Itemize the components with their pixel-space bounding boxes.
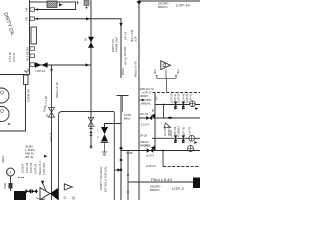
svg-text:250B: 250B: [126, 151, 133, 155]
inline strainer tall rect: [31, 27, 36, 44]
svg-text:C: C: [64, 195, 67, 200]
top boundary line: [139, 0, 200, 2]
svg-text:304: 304: [176, 69, 180, 74]
rounded package box top and right edge: [62, 112, 114, 201]
instrument circle cross b: [189, 135, 195, 141]
manifold row A line y104.5: [155, 104, 200, 106]
node dot: [8, 123, 10, 125]
svg-text:W6 49: W6 49: [25, 155, 34, 159]
dashed line y166.5: [163, 166, 200, 168]
manifold row D line y138.3: [152, 137, 200, 139]
svg-text:P&Id x 5.49: P&Id x 5.49: [151, 177, 172, 182]
junction blob x121 y170: [120, 169, 123, 172]
svg-text:MT SOLV.TOR (IA): MT SOLV.TOR (IA): [104, 167, 108, 192]
svg-text:N5: N5: [25, 16, 29, 20]
svg-text:CHEM.RO: CHEM.RO: [27, 88, 31, 102]
svg-text:LOP-30: LOP-30: [182, 126, 186, 136]
svg-text:LlP-26: LlP-26: [139, 134, 148, 138]
dashed signal line: [153, 92, 201, 94]
nozzle flange F2: [30, 17, 35, 20]
svg-text:250B: 250B: [169, 130, 173, 137]
mini drain bowtie: [89, 132, 93, 136]
svg-text:LGV-3: LGV-3: [146, 154, 154, 158]
svg-text:DIRTY OIL: DIRTY OIL: [2, 12, 15, 37]
row D feet arrows: [174, 141, 177, 143]
x128 line: [127, 151, 129, 201]
svg-text:LOP-18: LOP-18: [29, 162, 33, 173]
package box left edge: [59, 112, 63, 201]
row A feet arrows: [174, 107, 177, 109]
svg-text:x: x: [97, 135, 99, 139]
mixer bar with upturned ends: [157, 76, 176, 79]
top node diamond: [137, 0, 142, 4]
wire to F1 with arrow: [35, 9, 76, 11]
stub arrow at x139 y100: [139, 99, 142, 101]
svg-text:Q: Q: [72, 195, 75, 200]
wire top-left box outline: [30, 2, 76, 10]
pump circle C2: [0, 107, 9, 122]
svg-text:LOP-26: LOP-26: [177, 93, 181, 103]
dotted row: [18, 177, 24, 179]
wire vessel right edge: [0, 85, 26, 132]
svg-text:2x: 2x: [45, 113, 49, 117]
wire valve line y65: [35, 64, 92, 66]
svg-text:LOP-3: LOP-3: [172, 186, 184, 191]
svg-text:LO-41: LO-41: [189, 93, 193, 101]
mixer triangle symbol: [161, 61, 171, 70]
tick below V3: [89, 128, 93, 130]
pump circle C1: [0, 88, 9, 103]
svg-text:BRIDYL: BRIDYL: [158, 5, 169, 9]
T stem mid: [122, 96, 124, 113]
lever: [43, 183, 47, 192]
svg-text:(DIRTY OIL REA(: (DIRTY OIL REA(: [99, 167, 103, 190]
instrument cluster top: [84, 0, 89, 6]
instrument circle cross c: [188, 146, 194, 152]
arrow at junction with x91 line: [86, 17, 90, 20]
stem to signal line: [165, 78, 167, 92]
svg-text:LOP-16: LOP-16: [36, 69, 46, 73]
junction dot: [51, 69, 53, 71]
svg-text:SM01: SM01: [1, 155, 5, 163]
svg-text:P&Id x 5.49: P&Id x 5.49: [134, 61, 138, 77]
manifold left line x155: [154, 93, 156, 151]
arrow down on x121: [119, 23, 122, 27]
svg-text:x: x: [97, 128, 99, 132]
instrument circle cross a: [190, 101, 196, 107]
arrow into box: [59, 3, 63, 6]
svg-text:LO-42: LO-42: [188, 126, 192, 134]
wire F2 east to corner then down: line x121: [35, 19, 122, 78]
black bowtie on y150.5: [147, 148, 154, 153]
small bowtie b: [32, 189, 38, 194]
svg-text:05: 05: [151, 108, 155, 112]
branch west to control valve: [105, 124, 122, 128]
svg-text:N5 #49: N5 #49: [123, 47, 127, 56]
heat exchanger E1 hatched: [47, 1, 57, 7]
mixer connector: [165, 70, 167, 79]
svg-text:304: 304: [153, 69, 157, 74]
svg-text:50: 50: [84, 37, 88, 41]
svg-text:N2: N2: [26, 68, 30, 72]
svg-text:LGP-34: LGP-34: [146, 164, 156, 168]
main line x91: [90, 0, 92, 147]
svg-text:LlP-14: LlP-14: [124, 31, 128, 40]
control valve V2 black: [101, 127, 108, 142]
big valve open half: [40, 188, 50, 200]
black arrow on x155 lower: [151, 146, 155, 151]
vertical x163.5 A to B: [163, 105, 165, 119]
bottom pipe y182: [128, 181, 200, 183]
T-bar vent on x121: [117, 95, 129, 97]
valve V1 black bowtie vertical: [88, 37, 94, 48]
valve LOP-16 black bowtie: [35, 62, 48, 68]
arrow before junction: [86, 63, 90, 66]
nozzle rect N5: [30, 47, 35, 51]
open triangle marker: [64, 184, 72, 190]
svg-text:P&Id: P&Id: [3, 182, 7, 189]
svg-text:LGV-4: LGV-4: [141, 123, 149, 127]
svg-text:LOP-14: LOP-14: [176, 3, 191, 8]
big valve black half: [50, 188, 58, 200]
small black box: [9, 183, 13, 189]
bottom-left black equipment: [14, 191, 26, 200]
svg-text:N4: N4: [25, 7, 29, 11]
drop to dashed: [162, 151, 164, 167]
nozzle rect N6: [30, 54, 35, 58]
svg-text:BRIDYL: BRIDYL: [141, 101, 152, 105]
svg-text:FROM UNIT: FROM UNIT: [115, 36, 119, 52]
row D mini valve b: [182, 135, 186, 141]
LS instrument circle: [7, 168, 15, 176]
nozzle flange F3: [30, 63, 35, 67]
svg-text:N13 N9 N8: N13 N9 N8: [26, 47, 30, 61]
tick marks near box edge: [77, 1, 80, 5]
row D mini valve a: [174, 135, 178, 141]
svg-text:LOP-36A: LOP-36A: [42, 163, 46, 175]
line y150.5: [121, 150, 200, 152]
big valve arc: [36, 198, 45, 200]
svg-text:45005: 45005: [140, 94, 148, 98]
svg-text:N5#4: N5#4: [121, 68, 125, 75]
stem: [10, 176, 12, 191]
junction dot row A: [163, 104, 165, 106]
black bowtie valve on y118: [146, 116, 152, 120]
svg-text:(LO)24: (LO)24: [21, 163, 25, 173]
small open triangle: [164, 123, 171, 128]
black blob on y118: [168, 117, 172, 119]
black arrow on x155 upper: [151, 114, 155, 119]
svg-text:LOP-24: LOP-24: [34, 163, 38, 174]
small bowtie a: [26, 189, 32, 194]
black square terminator: [193, 178, 200, 189]
valve bottom tick: [101, 142, 109, 144]
svg-text:LOP-11: LOP-11: [49, 132, 53, 142]
svg-text:1.5 x 58: 1.5 x 58: [44, 96, 48, 106]
line y118: [139, 117, 200, 119]
svg-text:LOP 11: LOP 11: [12, 52, 16, 62]
svg-text:P&Id x 5.49: P&Id x 5.49: [55, 82, 59, 98]
svg-text:CHEM-2: CHEM-2: [177, 125, 181, 136]
wire y191: [24, 191, 38, 193]
wire vessel top edge: [0, 74, 30, 76]
open bowtie valve V3 on x91: [88, 117, 94, 126]
drop line x51.5: [51, 65, 53, 200]
end dot: [90, 146, 92, 148]
row A mini valve b: [182, 102, 186, 108]
svg-text:LS: LS: [8, 171, 12, 175]
header pipe: [29, 0, 31, 75]
arrow from box edge to x121: [114, 169, 118, 171]
svg-text:BRIDYL: BRIDYL: [150, 188, 161, 192]
nozzle flange F1: [30, 8, 35, 11]
open bowtie valve V4: [49, 107, 55, 117]
node diamond on x121: [119, 146, 123, 150]
svg-text:LOP: LOP: [134, 36, 138, 42]
svg-text:1A: 1A: [155, 96, 159, 100]
small arrow: [44, 155, 48, 158]
svg-text:250B: 250B: [144, 144, 151, 148]
long line x139: [138, 1, 140, 200]
node diamond x121 y160: [119, 158, 122, 162]
tiny mark above R1: [25, 71, 28, 73]
inline instrument rect R1: [24, 75, 29, 85]
svg-text:LlP-19: LlP-19: [124, 56, 128, 65]
svg-text:8#10: 8#10: [124, 117, 131, 121]
svg-text:LlP-25: LlP-25: [140, 112, 149, 116]
junction: [162, 150, 164, 152]
row A mini valve a: [174, 102, 178, 108]
